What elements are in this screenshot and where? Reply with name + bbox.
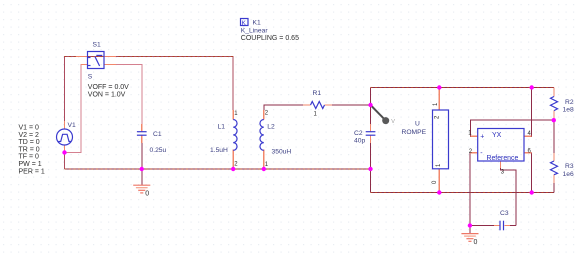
wire: ROMPE bottom stub [438, 169, 440, 193]
wire: top rail left dashes [65, 56, 234, 58]
svg-text:U: U [415, 121, 420, 128]
pin stub: R1 right [325, 104, 333, 106]
svg-text:R3: R3 [565, 163, 574, 170]
pin stub: R2 bottom [553, 111, 555, 121]
pin stub: V1 bottom [64, 145, 66, 153]
pin stub: L2 top [263, 110, 265, 120]
pin stub: YX pin6 [524, 152, 532, 154]
svg-text:YX: YX [492, 132, 502, 139]
svg-text:V1 = 0: V1 = 0 [19, 125, 40, 132]
voltage probe [372, 106, 396, 125]
svg-text:TR = 0: TR = 0 [19, 146, 40, 153]
wire: ground rail bottom left [65, 168, 371, 170]
resistor R2 [551, 97, 558, 111]
pin stub: C1 bottom [141, 136, 143, 144]
pin stub: C3 left [494, 225, 500, 227]
junction R2 bottom [552, 118, 556, 122]
wire: center vertical C2 branch lower [370, 136, 372, 193]
wire: pin4 up to top rail [524, 88, 532, 137]
svg-text:L1: L1 [218, 124, 226, 131]
pin stub: R3 bottom [553, 175, 555, 183]
reference box YX [478, 129, 524, 163]
ground 0 left [133, 185, 150, 193]
pin stub: R2 top [553, 88, 555, 97]
svg-text:VON = 1.0V: VON = 1.0V [88, 92, 126, 99]
svg-text:0: 0 [145, 191, 149, 198]
svg-text:0: 0 [474, 239, 478, 246]
junction V1 bottom [62, 150, 66, 154]
wire: bottom rail right section [371, 192, 555, 194]
wire: R1 right to node [328, 104, 371, 106]
wire: right column R2 to R3 [553, 111, 555, 161]
svg-text:0.25u: 0.25u [150, 147, 167, 154]
pin stub: S1 left upper [76, 56, 88, 58]
wire: L2 top to R1 [264, 105, 308, 119]
pin stub: C1 top [141, 124, 143, 131]
wire: bottom rail right dashes [371, 192, 555, 194]
junction C1 rail [140, 167, 144, 171]
wire: S1 lower-right branch to C1 [104, 65, 142, 132]
pin stub: YX plus [470, 135, 477, 137]
svg-text:TF = 0: TF = 0 [19, 154, 40, 161]
ground 0 right [461, 234, 478, 242]
svg-text:S: S [88, 74, 93, 81]
wire: pin6 down to bottom rail [524, 153, 532, 193]
wire: top rail right section [371, 87, 555, 89]
pin stub: S1 right lower [104, 64, 116, 66]
capacitor C3 [500, 221, 504, 231]
pin stub: YX pin2 [470, 152, 478, 154]
wire: pin2 down to C3 node [470, 153, 478, 226]
wire: right column R2 top [553, 88, 555, 97]
pin stub: L1 top [232, 110, 234, 120]
svg-text:C2: C2 [354, 130, 363, 137]
svg-text:COUPLING = 0.65: COUPLING = 0.65 [241, 35, 299, 42]
wire: C3 right segment [510, 225, 516, 227]
wire: ground rail dashes [65, 168, 371, 170]
wire: right column R3 bottom [553, 175, 555, 193]
switch S1 [88, 52, 105, 69]
svg-text:V: V [391, 119, 395, 125]
svg-text:V2 = 2: V2 = 2 [19, 132, 40, 139]
wire: plus-pin tap to R2 bottom [470, 120, 553, 136]
resistor R3 [551, 161, 558, 175]
svg-text:VOFF = 0.0V: VOFF = 0.0V [88, 84, 129, 91]
svg-text:K_Linear: K_Linear [241, 28, 269, 35]
source parameter text block [19, 125, 45, 176]
svg-text:1e8: 1e8 [563, 107, 574, 114]
wire: top rail left section [65, 57, 234, 130]
inductor L2 [260, 120, 264, 151]
coupling K box [241, 19, 249, 28]
svg-text:K: K [242, 20, 247, 27]
junction left rail end [368, 167, 372, 171]
wire: C1 bottom to rail [141, 136, 143, 170]
capacitor C2 [366, 132, 376, 136]
svg-text:R1: R1 [313, 90, 322, 97]
pin stub: C3 right [504, 225, 510, 227]
spark gap U ROMPE box [433, 110, 449, 169]
svg-text:PER = 1: PER = 1 [19, 168, 45, 175]
pin stub: C2 top [370, 124, 372, 131]
voltage source V1 [57, 129, 73, 145]
junction ROMPE bottom [437, 190, 441, 194]
wire: center vertical C2 branch upper [370, 88, 372, 132]
svg-text:350uH: 350uH [272, 149, 292, 156]
pin stub: C2 bottom [370, 136, 372, 144]
pin stub: S1 left lower [81, 64, 88, 66]
svg-text:PW = 1: PW = 1 [19, 161, 42, 168]
svg-text:C1: C1 [153, 131, 162, 138]
svg-text:V1: V1 [68, 122, 76, 129]
junction ROMPE top [437, 85, 441, 89]
wire: ground1 drop [141, 169, 143, 185]
svg-text:C3: C3 [500, 210, 509, 217]
svg-text:ROMPE: ROMPE [402, 129, 427, 136]
junction L2 rail [262, 167, 266, 171]
inductor L1 [233, 120, 237, 151]
svg-text:R2: R2 [565, 99, 574, 106]
svg-text:S1: S1 [93, 42, 101, 49]
pin stub: S1 right upper [104, 56, 116, 58]
svg-text:+: + [480, 134, 484, 141]
svg-text:1e6: 1e6 [563, 171, 574, 178]
pin stub: L2 bottom [263, 150, 265, 170]
resistor R1 [311, 102, 325, 109]
svg-text:K1: K1 [253, 20, 261, 27]
wire: C3 left segment [470, 225, 494, 227]
wire: top rail right dashes [371, 87, 555, 89]
svg-text:1.5uH: 1.5uH [210, 147, 228, 154]
pin stub: V1 top [64, 121, 66, 129]
junction pin6 bottom rail [530, 190, 534, 194]
wire: V1 bottom to ground rail [64, 145, 66, 169]
wire: ROMPE top stub [438, 88, 440, 111]
wire: S1 lower-left branch [65, 65, 89, 153]
svg-text:L2: L2 [267, 124, 275, 131]
wire: ground2 drop [469, 226, 471, 234]
svg-text:40p: 40p [354, 138, 365, 145]
pin stub: L1 bottom [232, 150, 234, 170]
junction probe node [368, 103, 372, 107]
svg-text:TD = 0: TD = 0 [19, 139, 40, 146]
pin stub: YX pin3 [499, 161, 501, 168]
pin stub: R3 top [553, 153, 555, 161]
junction pin4 top rail [530, 85, 534, 89]
svg-text:Reference: Reference [487, 155, 519, 162]
wire: pin3 to C3 right [500, 165, 515, 226]
junction C3 ground node [468, 223, 472, 227]
pin stub: YX pin4 [524, 135, 532, 137]
junction L1 rail [231, 167, 235, 171]
capacitor C1 [137, 132, 147, 136]
pin stub: R1 left [303, 104, 311, 106]
